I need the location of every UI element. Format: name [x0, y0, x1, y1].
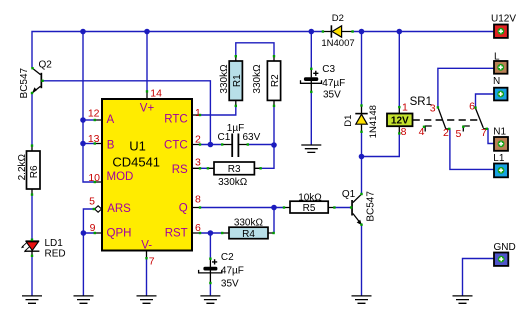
svg-text:1N4007: 1N4007	[321, 38, 354, 49]
svg-text:1: 1	[402, 102, 408, 114]
svg-text:CD4541: CD4541	[112, 155, 160, 170]
diode D1 1N4148	[343, 105, 379, 138]
green pin contact ticks	[31, 30, 488, 284]
svg-text:330kΩ: 330kΩ	[252, 64, 263, 94]
resistor R6	[17, 146, 40, 195]
svg-text:330kΩ: 330kΩ	[218, 177, 248, 188]
svg-text:Q1: Q1	[342, 189, 356, 200]
capacitor C3 polarized	[301, 64, 346, 101]
ground under GND connector	[453, 296, 473, 303]
wire R1 top to R2 top	[236, 43, 274, 57]
svg-text:LD1: LD1	[45, 238, 64, 249]
svg-text:1: 1	[195, 107, 201, 119]
wire C2 to ground	[209, 283, 211, 295]
svg-text:L: L	[494, 51, 500, 62]
wire pin 13 stub	[83, 143, 95, 145]
svg-text:BC547: BC547	[19, 67, 30, 98]
svg-text:35V: 35V	[323, 90, 341, 101]
svg-text:D2: D2	[332, 13, 344, 24]
svg-text:RS: RS	[172, 164, 188, 176]
svg-text:R3: R3	[228, 164, 241, 175]
svg-text:C3: C3	[322, 64, 335, 75]
svg-text:8: 8	[401, 126, 407, 138]
svg-text:V+: V+	[140, 103, 155, 115]
svg-text:BC547: BC547	[366, 191, 377, 222]
svg-text:SR1: SR1	[410, 96, 432, 108]
wire R6 to LED	[31, 195, 33, 240]
svg-text:330kΩ: 330kΩ	[234, 217, 264, 228]
wire C3 bottom to ground	[310, 92, 312, 145]
ground under ARS QPH	[74, 296, 94, 303]
svg-text:ARS: ARS	[107, 203, 131, 215]
wire top rail left from corner to D2	[32, 32, 323, 69]
wire pin 3 RS stub	[200, 167, 208, 169]
svg-text:7: 7	[149, 256, 155, 268]
connector L	[494, 51, 508, 73]
wire Q2 emitter to R6	[31, 93, 33, 146]
wire pin 14 vertical	[146, 32, 148, 92]
svg-text:R4: R4	[242, 229, 255, 240]
LED LD1	[21, 238, 66, 260]
wire relay coil pin 8 to D1 node	[362, 133, 400, 156]
relay SR1 dashed link	[413, 119, 480, 121]
relay terminal 4 mark	[419, 126, 432, 138]
svg-text:N: N	[493, 76, 500, 87]
svg-text:QPH: QPH	[107, 228, 132, 240]
svg-text:35V: 35V	[221, 278, 239, 289]
wire pin 12 stub	[83, 119, 95, 121]
svg-text:2.2kΩ: 2.2kΩ	[17, 153, 28, 180]
svg-text:1N4148: 1N4148	[368, 105, 379, 138]
relay contact 6-7	[469, 101, 487, 139]
svg-text:47µF: 47µF	[221, 266, 244, 277]
wire R5 to Q1 base	[334, 207, 351, 209]
svg-text:CTC: CTC	[164, 139, 188, 151]
connector GND	[494, 242, 516, 266]
wire N connector to contact 6	[476, 94, 495, 107]
svg-text:B: B	[107, 140, 115, 152]
svg-text:6: 6	[469, 101, 475, 113]
wire pin 7 to ground	[146, 258, 148, 296]
svg-text:330kΩ: 330kΩ	[219, 64, 230, 94]
wire relay coil pin 1 to rail	[398, 32, 400, 108]
resistor R4	[222, 217, 273, 240]
capacitor C1	[218, 123, 261, 157]
wire Q2 base to CTC node	[42, 81, 210, 145]
wire C3 top	[310, 32, 312, 69]
wire GND connector to ground	[463, 259, 495, 296]
svg-text:14: 14	[150, 88, 162, 100]
svg-text:D1: D1	[343, 115, 354, 127]
wire contact 2 to L1 connector	[449, 129, 494, 170]
wire D1 anode to Q1 collector	[361, 132, 363, 194]
svg-text:12: 12	[88, 108, 100, 120]
wire pin 8 Q to R5	[200, 207, 284, 209]
wire Q1 emitter to ground	[361, 225, 363, 296]
wire top rail right from D2 to U12V	[353, 31, 494, 33]
wire L connector to contact 3	[438, 68, 494, 107]
diode D2 1N4007	[321, 13, 354, 49]
resistor R5	[284, 192, 334, 214]
svg-text:MOD: MOD	[107, 171, 134, 183]
wire D1 cathode to rail	[361, 32, 363, 106]
svg-text:R2: R2	[270, 74, 281, 87]
wire Q node down to R4 right	[273, 208, 275, 234]
svg-text:63V: 63V	[243, 132, 261, 143]
wire pin 6 RST to R4 left	[200, 232, 222, 234]
ground under C2	[200, 296, 220, 303]
resistor R1	[219, 56, 243, 106]
svg-text:R1: R1	[232, 74, 243, 87]
wire pin 1 RTC to R1	[200, 106, 236, 115]
svg-text:RTC: RTC	[164, 114, 187, 126]
resistor R2	[252, 56, 281, 106]
wire node down to R3 right	[261, 145, 274, 168]
transistor Q1	[342, 189, 377, 225]
svg-text:8: 8	[195, 194, 201, 206]
svg-text:47µF: 47µF	[322, 78, 345, 89]
capacitor C2 polarized	[199, 252, 244, 290]
wire C1 to node	[248, 144, 274, 146]
wire V+ vertical to pins 12 13 and MOD	[83, 32, 95, 183]
svg-text:5: 5	[89, 196, 95, 208]
ground under C3	[301, 145, 321, 152]
svg-text:GND: GND	[494, 242, 516, 253]
relay SR1 coil	[387, 96, 432, 138]
svg-text:RST: RST	[165, 228, 188, 240]
svg-text:3: 3	[195, 157, 201, 169]
svg-text:Q2: Q2	[39, 60, 53, 71]
op-amp U1 CD4541 IC body	[88, 88, 201, 268]
wire LED to ground	[31, 256, 33, 296]
ground under pin 7	[137, 296, 157, 303]
transistor Q2	[19, 60, 52, 99]
wire contact 7 to N1 connector	[487, 129, 495, 144]
relay terminal 5 mark	[456, 126, 470, 140]
wire RST node down to C2	[209, 233, 211, 259]
svg-text:5: 5	[456, 128, 462, 140]
wire R2 bottom to CTC node	[273, 106, 275, 145]
svg-text:C1: C1	[218, 132, 231, 143]
svg-text:3: 3	[430, 103, 436, 115]
svg-text:RED: RED	[45, 249, 66, 260]
svg-text:N1: N1	[493, 126, 506, 137]
svg-text:R5: R5	[303, 203, 316, 214]
connector L1	[493, 153, 508, 177]
svg-text:A: A	[107, 114, 115, 126]
connector U12V	[491, 13, 516, 38]
svg-text:U12V: U12V	[491, 13, 516, 24]
connector N1	[493, 126, 508, 151]
ground under LED	[22, 296, 42, 303]
ground under Q1	[352, 296, 372, 303]
svg-text:U1: U1	[129, 139, 146, 154]
connector N	[493, 76, 508, 100]
svg-text:10kΩ: 10kΩ	[298, 192, 322, 203]
wire pin 2 CTC to C1	[200, 144, 222, 146]
svg-text:R6: R6	[29, 165, 40, 178]
svg-text:V-: V-	[141, 239, 152, 251]
resistor R3	[208, 162, 261, 188]
wire ARS to QPH to ground	[83, 209, 94, 296]
svg-text:12V: 12V	[391, 116, 409, 127]
svg-text:L1: L1	[493, 153, 505, 164]
svg-text:Q: Q	[179, 203, 188, 215]
svg-text:C2: C2	[221, 252, 234, 263]
relay contact 3-2	[430, 103, 449, 140]
